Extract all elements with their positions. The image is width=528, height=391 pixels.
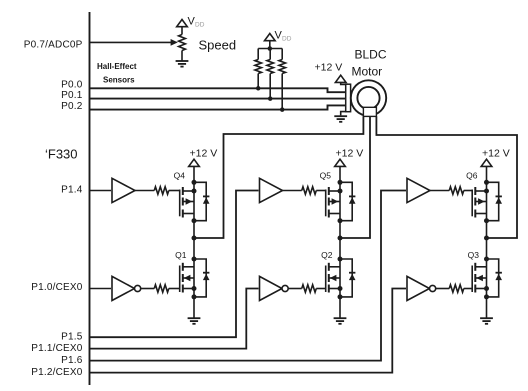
svg-text:BLDC: BLDC (355, 48, 387, 62)
diode body diode of Q4 (194, 182, 210, 220)
node Q4 source junction (192, 180, 197, 185)
resistor speed potentiometer (179, 35, 186, 51)
resistor gate Q2 (288, 285, 325, 293)
svg-text:Motor: Motor (352, 64, 383, 78)
resistor gate Q6 (430, 187, 472, 195)
wire +12V rail to Q6 source (486, 166, 488, 182)
svg-text:P1.2/CEX0: P1.2/CEX0 (31, 367, 83, 378)
node Q5 drain junction (338, 218, 343, 223)
node Q3 drain junction (484, 257, 489, 262)
node Q2 source junction (338, 294, 343, 299)
BLDC motor terminal block (left) (346, 84, 351, 112)
svg-text:Q4: Q4 (174, 170, 186, 180)
svg-text:‘F330: ‘F330 (45, 146, 78, 161)
svg-text:Speed: Speed (199, 37, 237, 52)
resistor gate Q1 (141, 285, 180, 293)
svg-text:Q5: Q5 (320, 170, 332, 180)
label Hall-Effect Sensors (97, 62, 137, 85)
wire P1.5 to buffer U2A input (90, 191, 259, 338)
node Q3 source stub junction (484, 286, 489, 291)
svg-text:P0.0: P0.0 (61, 80, 83, 91)
node Q5 top stub junction (338, 189, 343, 194)
node junction pull-up to P0 line (256, 86, 261, 91)
node phase output half-bridge 2 (338, 236, 343, 241)
node junction pull-up to P0 line (280, 107, 285, 112)
resistor gate Q5 (283, 187, 326, 195)
wire P0.0 hall sensor line to motor connector (90, 88, 346, 92)
node Q4 drain junction (192, 218, 197, 223)
node Q1 drain junction (192, 257, 197, 262)
wire motor phase B to half-bridge 2 output (340, 116, 370, 238)
wire P1.6 to buffer U3A input (90, 191, 407, 361)
node Q2 source stub junction (338, 286, 343, 291)
power symbol +12V (half-bridge 3) (481, 159, 492, 166)
svg-text:Q3: Q3 (468, 250, 480, 260)
svg-text:+12 V: +12 V (190, 147, 218, 159)
wire +12V to motor connector (341, 82, 346, 84)
diode body diode of Q3 (487, 259, 503, 297)
power symbol VDD (hall pull-ups) (265, 34, 276, 41)
node phase output half-bridge 3 (484, 236, 489, 241)
resistor R pull-up P0.0 (255, 49, 262, 89)
wire P1.1/CEX0 to inverter U2B input (90, 289, 259, 349)
power symbol +12V (motor) (335, 75, 346, 82)
svg-text:P1.5: P1.5 (61, 331, 83, 342)
wire Q3 source to ground (486, 297, 488, 318)
op-amp inverter U3B (low-side driver) (407, 276, 436, 300)
op-amp buffer U1A (high-side driver) (112, 178, 135, 202)
power symbol +12V (half-bridge 1) (189, 159, 200, 166)
wire P0.7 to speed pot wiper (with arrowhead) (90, 39, 178, 46)
wire P1.4 to buffer U1A input (90, 190, 112, 192)
op-amp inverter U1B (low-side driver) (112, 276, 141, 300)
node Q5 source junction (338, 180, 343, 185)
transistor Q6 (P-channel MOSFET high side) (472, 182, 486, 238)
diode body diode of Q2 (340, 259, 356, 297)
label VDD (hall pull-ups) (275, 30, 292, 43)
svg-text:P1.0/CEX0: P1.0/CEX0 (31, 282, 83, 293)
wire motor phase A to half-bridge 1 output (194, 116, 363, 238)
diode body diode of Q5 (340, 182, 356, 220)
wire VDD to speed pot (181, 27, 183, 35)
ground (half-bridge 1) (188, 318, 201, 324)
ground (motor) (334, 116, 347, 122)
op-amp buffer U2A (high-side driver) (260, 178, 283, 202)
wire motor connector to ground (341, 112, 346, 116)
wire pull-up rail (258, 48, 282, 50)
node Q4 top stub junction (192, 189, 197, 194)
label BLDC Motor (352, 48, 387, 79)
svg-text:P0.7/ADC0P: P0.7/ADC0P (24, 40, 83, 51)
svg-text:Q1: Q1 (175, 250, 187, 260)
node Q6 drain junction (484, 218, 489, 223)
svg-text:P1.6: P1.6 (61, 355, 83, 366)
svg-text:Hall-Effect: Hall-Effect (97, 62, 137, 71)
svg-text:P0.2: P0.2 (61, 101, 83, 112)
transistor Q2 (N-channel MOSFET low side) (326, 238, 340, 297)
BLDC motor body (outer circle) (351, 80, 386, 115)
node phase output half-bridge 1 (192, 236, 197, 241)
wire P0.2 hall sensor line to motor connector (90, 105, 346, 109)
node Q1 source junction (192, 294, 197, 299)
svg-text:P1.4: P1.4 (61, 185, 83, 196)
node Q1 source stub junction (192, 286, 197, 291)
wire Q2 source to ground (339, 297, 341, 318)
ground (half-bridge 3) (480, 318, 493, 324)
wire P1.0/CEX0 to inverter U1B input (90, 288, 112, 290)
svg-text:+12 V: +12 V (482, 147, 510, 159)
diode body diode of Q6 (487, 182, 503, 220)
op-amp inverter U2B (low-side driver) (260, 276, 289, 300)
node Q6 top stub junction (484, 189, 489, 194)
op-amp buffer U3A (high-side driver) (407, 178, 430, 202)
wire +12V rail to Q5 source (339, 166, 341, 182)
transistor Q3 (N-channel MOSFET low side) (472, 238, 486, 297)
diode body diode of Q1 (194, 259, 210, 297)
node junction pull-up to P0 line (268, 96, 273, 101)
svg-text:P0.1: P0.1 (61, 90, 83, 101)
node Q3 source junction (484, 294, 489, 299)
wire P0.1 hall sensor line to motor connector (90, 98, 346, 100)
wire speed pot to ground (181, 51, 183, 62)
ground (half-bridge 2) (334, 318, 347, 324)
wire VDD to pull-up rail (269, 41, 271, 49)
node Q2 drain junction (338, 257, 343, 262)
svg-text:Q2: Q2 (321, 250, 333, 260)
wire P1.2/CEX0 to inverter U3B input (90, 289, 407, 373)
resistor gate Q3 (436, 285, 472, 293)
transistor Q4 (P-channel MOSFET high side) (180, 182, 194, 238)
wire MCU port edge ('F330 left bus line) (89, 12, 91, 385)
resistor R pull-up P0.1 (267, 49, 274, 99)
svg-text:Q6: Q6 (466, 170, 478, 180)
wire +12V rail to Q4 source (193, 166, 195, 182)
svg-text:+12 V: +12 V (315, 62, 343, 74)
transistor Q5 (P-channel MOSFET high side) (326, 182, 340, 238)
svg-text:P1.1/CEX0: P1.1/CEX0 (31, 343, 83, 354)
wire motor phase C to half-bridge 3 output (376, 116, 517, 238)
ground (speed pot) (176, 61, 189, 67)
power symbol VDD (speed pot) (177, 20, 188, 27)
transistor Q1 (N-channel MOSFET low side) (180, 238, 194, 297)
node pull-up rail junction (268, 46, 273, 51)
wire Q1 source to ground (193, 297, 195, 318)
BLDC motor terminal block (bottom) (363, 107, 376, 116)
label VDD (speed pot) (188, 16, 205, 29)
BLDC motor body (inner circle) (357, 87, 379, 109)
svg-text:+12 V: +12 V (336, 147, 364, 159)
node Q6 source junction (484, 180, 489, 185)
svg-text:DD: DD (282, 36, 292, 43)
svg-text:Sensors: Sensors (103, 76, 135, 85)
svg-text:DD: DD (195, 21, 205, 28)
power symbol +12V (half-bridge 2) (335, 159, 346, 166)
resistor gate Q4 (135, 187, 180, 195)
resistor R pull-up P0.2 (279, 49, 286, 110)
